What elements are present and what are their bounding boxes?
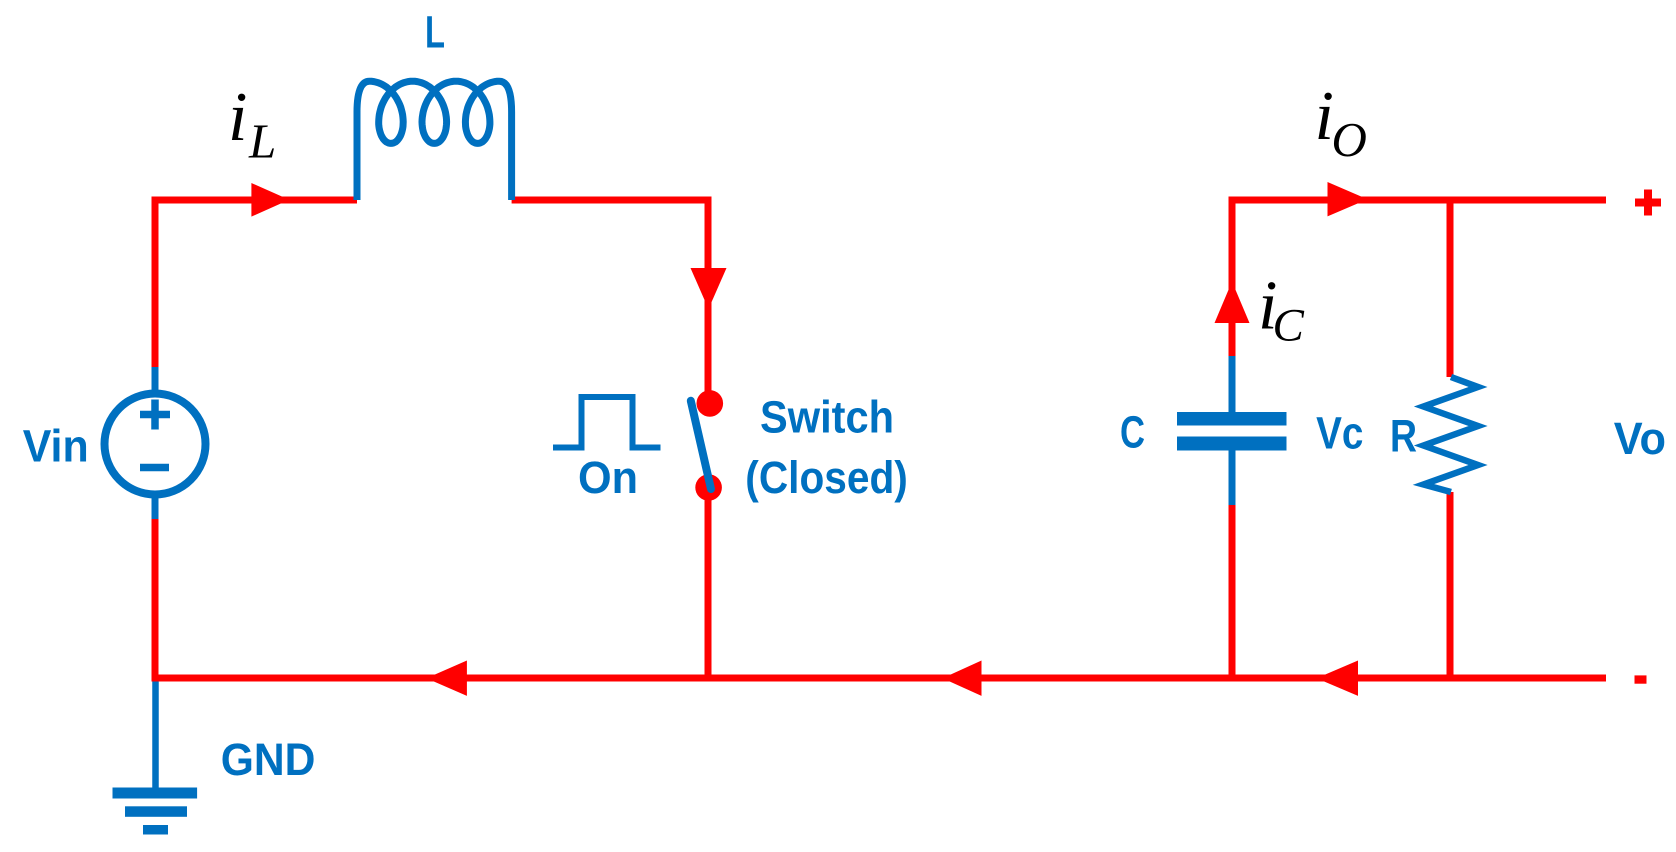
svg-text:(Closed): (Closed)	[745, 452, 908, 503]
svg-text:Switch: Switch	[760, 392, 894, 443]
svg-text:R: R	[1390, 411, 1417, 462]
svg-text:L: L	[425, 7, 445, 58]
svg-text:Vin: Vin	[23, 420, 89, 471]
svg-text:C: C	[1120, 407, 1145, 458]
svg-text:On: On	[578, 452, 638, 503]
svg-text:iO: iO	[1315, 78, 1367, 167]
svg-text:Vo: Vo	[1614, 413, 1666, 464]
svg-text:iC: iC	[1258, 268, 1304, 352]
svg-text:iL: iL	[228, 79, 276, 169]
svg-text:GND: GND	[221, 734, 316, 785]
svg-text:Vc: Vc	[1316, 407, 1363, 458]
